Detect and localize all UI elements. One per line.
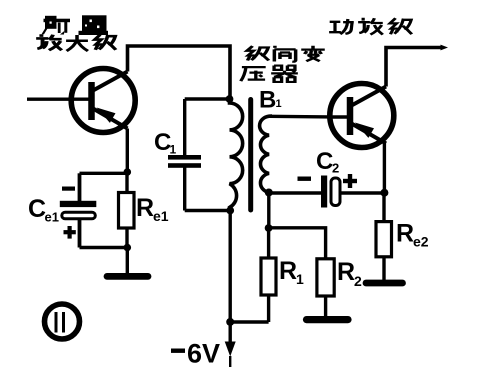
wire: Q1 emitter down: [126, 129, 129, 174]
resistor Re2: [376, 193, 392, 281]
wire: junction to R2 top: [269, 228, 326, 259]
resistor Re1: [119, 172, 135, 248]
svg-text:1: 1: [170, 143, 177, 157]
wire: C1 bottom connection: [185, 209, 231, 212]
transistor Q1 (preamp, PNP): [71, 69, 135, 133]
svg-text:6V: 6V: [187, 339, 220, 369]
ground (stage 1 emitter): [107, 273, 148, 280]
node: emitter junction dot: [124, 168, 132, 176]
label 前置 (preamp title line 1): [42, 15, 109, 35]
label minus sign of Ce1: [62, 187, 75, 191]
wire: C2 to Q2 emitter junction: [340, 191, 384, 194]
ground (R2): [307, 316, 349, 323]
ground (Re2): [366, 280, 403, 287]
svg-text:C: C: [28, 195, 46, 223]
node: transformer primary bottom dot: [226, 207, 234, 215]
svg-text:R: R: [337, 258, 355, 286]
svg-text:e1: e1: [45, 210, 59, 225]
wire: primary bottom down to -6V junction: [228, 211, 231, 323]
label -6V supply: [171, 349, 185, 353]
transformer B1 secondary winding: [260, 116, 272, 193]
capacitor C2 (electrolytic): [321, 176, 340, 208]
node: -6V junction dot: [226, 318, 234, 326]
wire: C1 lower lead: [183, 167, 186, 211]
wire: secondary top to Q2 base: [269, 115, 330, 119]
wire: Ce1 bottom lead: [78, 220, 82, 248]
svg-text:R: R: [136, 194, 154, 222]
label output arrow tip: [441, 45, 449, 51]
wire: to ground 1: [126, 248, 129, 275]
transistor Q2 (power stage, PNP): [330, 84, 394, 148]
svg-text:1: 1: [296, 271, 304, 287]
node: Re1 bottom junction dot: [124, 244, 132, 252]
wire: Q2 emitter down: [383, 144, 386, 194]
transformer B1 core: [248, 100, 253, 211]
node: Q2 emitter junction dot: [380, 189, 388, 197]
svg-text:1: 1: [276, 98, 282, 110]
node: secondary bottom dot: [265, 189, 273, 197]
wire: R1 bottom to -6V junction: [230, 320, 268, 323]
resistor R1: [261, 228, 276, 322]
label minus sign of C2: [298, 177, 312, 181]
svg-text:B: B: [259, 87, 276, 114]
node: transformer primary top dot: [226, 95, 234, 103]
label figure number 11: [45, 304, 80, 339]
svg-text:C: C: [316, 148, 333, 175]
label plus sign of Ce1: [64, 226, 76, 239]
wire: Q2 base lead: [330, 115, 349, 118]
wire: secondary bottom to C2: [269, 191, 322, 194]
transformer B1 primary winding: [230, 99, 243, 211]
label plus sign of C2: [343, 174, 357, 188]
resistor R2: [317, 259, 334, 317]
svg-text:2: 2: [354, 273, 362, 289]
wire: emitter junction to Ce1 branch: [80, 172, 128, 175]
svg-text:R: R: [279, 257, 297, 285]
label 级间变 (interstage transformer title line 1): [247, 46, 325, 62]
capacitor C1: [168, 155, 201, 168]
wire: -6V feed arrow: [225, 322, 236, 367]
wire: C1 top connection: [185, 97, 230, 100]
wire: Q1 collector to top rail: [128, 46, 231, 99]
label 放大级 (preamp title line 2): [36, 34, 116, 51]
svg-text:e2: e2: [413, 234, 429, 250]
capacitor Ce1 (electrolytic): [60, 201, 97, 219]
wire: Q1 base lead: [27, 97, 91, 100]
label 压器 (interstage transformer title line 2): [241, 66, 298, 82]
svg-text:R: R: [396, 220, 414, 248]
svg-text:e1: e1: [153, 208, 169, 224]
wire: C1 upper lead: [183, 99, 186, 156]
wire: Ce1 to Re1 bottom junction: [80, 246, 128, 249]
wire: Q2 collector to top rail with arrow: [386, 48, 443, 87]
svg-text:2: 2: [332, 161, 339, 176]
node: R1 top junction dot: [265, 224, 273, 232]
wire: Ce1 top lead: [78, 173, 82, 202]
wire: secondary bottom down to R1 junction: [267, 193, 270, 229]
label 功放级 (power amp stage title): [329, 18, 412, 35]
